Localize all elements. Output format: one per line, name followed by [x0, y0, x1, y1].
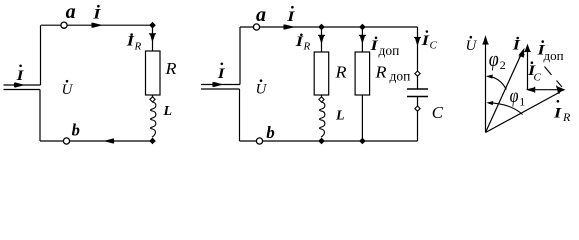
- svg-text:C: C: [432, 103, 444, 122]
- svg-text:I: I: [553, 106, 563, 122]
- svg-text:R: R: [164, 59, 177, 78]
- svg-text:доп: доп: [379, 43, 400, 58]
- svg-text:U: U: [256, 82, 268, 98]
- svg-text:φ: φ: [489, 47, 499, 71]
- svg-text:U: U: [62, 82, 74, 98]
- svg-text:L: L: [163, 104, 173, 119]
- svg-text:R: R: [134, 41, 142, 53]
- svg-text:2: 2: [500, 58, 506, 72]
- svg-text:I: I: [286, 9, 296, 25]
- svg-text:I: I: [512, 38, 522, 54]
- svg-text:U: U: [466, 38, 478, 54]
- svg-text:I: I: [217, 66, 226, 82]
- svg-text:1: 1: [519, 95, 525, 109]
- svg-text:C: C: [534, 72, 542, 84]
- svg-text:b: b: [266, 123, 275, 142]
- svg-text:a: a: [66, 1, 76, 23]
- svg-text:R: R: [374, 63, 387, 82]
- svg-text:доп: доп: [544, 48, 564, 63]
- svg-text:C: C: [430, 40, 438, 52]
- svg-text:a: a: [256, 4, 266, 26]
- svg-text:I: I: [15, 68, 24, 84]
- svg-text:R: R: [334, 63, 347, 82]
- svg-text:φ: φ: [510, 85, 519, 107]
- svg-text:доп: доп: [390, 69, 411, 84]
- svg-text:R: R: [303, 41, 311, 53]
- svg-text:b: b: [72, 121, 80, 140]
- svg-text:R: R: [562, 110, 571, 124]
- svg-text:I: I: [92, 7, 102, 23]
- svg-text:L: L: [335, 109, 345, 124]
